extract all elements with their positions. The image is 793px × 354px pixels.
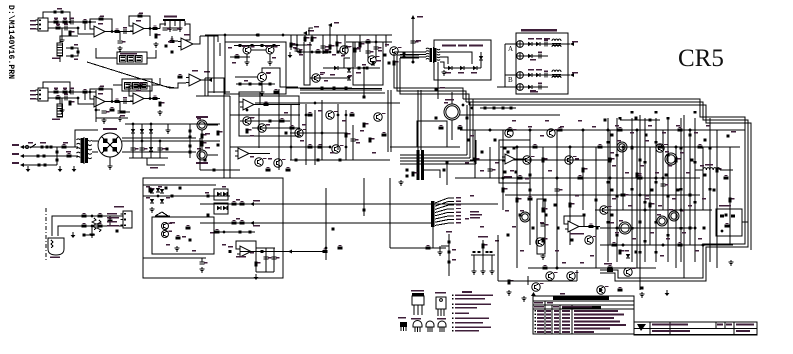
- label drv12: [372, 152, 376, 153]
- label U10: [570, 233, 584, 235]
- wire q6-q7: [251, 49, 266, 51]
- potentiometer VR2: [57, 104, 63, 117]
- wire U3 out: [108, 101, 133, 103]
- wire drv v6: [321, 100, 323, 160]
- wire stub up1: [309, 28, 313, 35]
- wire l5 lead: [695, 169, 703, 171]
- wire fan 3: [435, 205, 454, 209]
- wire amp v6: [542, 147, 544, 210]
- wire fan 6: [435, 216, 454, 219]
- component small 25: [680, 227, 683, 230]
- resistor R102: [338, 159, 341, 162]
- cap CL1: [116, 230, 119, 233]
- label amp 22: [630, 132, 634, 133]
- label LED2: [458, 72, 464, 74]
- wire t1 feed a: [400, 51, 426, 53]
- capacitor C33: [343, 46, 351, 48]
- resistor RA1: [466, 139, 469, 142]
- label amp 5: [610, 152, 614, 153]
- node A1: [69, 21, 71, 23]
- choke bars: [417, 150, 425, 180]
- transistor Q34: [546, 272, 558, 280]
- capacitor CB1: [102, 111, 110, 113]
- wire conduit loop a: [304, 42, 310, 85]
- wire into volume: [96, 48, 117, 58]
- wire B in1: [48, 91, 96, 93]
- resistor RA14: [638, 159, 641, 162]
- label rp1: [74, 44, 78, 45]
- wire u2a in2: [172, 36, 178, 41]
- resistor R151: [724, 175, 729, 180]
- cap C39: [362, 96, 365, 99]
- label amp 14: [680, 210, 684, 211]
- section boundary dash-dot: [45, 208, 47, 262]
- arrow aux2: [250, 221, 254, 225]
- wire lamp up2: [58, 226, 123, 236]
- label c2: [64, 24, 68, 25]
- junction J18: [556, 267, 559, 270]
- label fan pin 2: [456, 201, 461, 202]
- wire t1 feed c: [400, 56, 426, 58]
- resistor R137: [618, 127, 623, 132]
- junction J6: [516, 146, 519, 149]
- transformer T2: [77, 137, 92, 164]
- wire U1B out: [147, 28, 160, 30]
- resistor RA13: [610, 189, 613, 192]
- resistor R126: [569, 203, 575, 208]
- transistor Q32: [585, 236, 597, 244]
- wire cn1 left 2: [400, 222, 431, 224]
- label VR1: [52, 58, 60, 60]
- wire bank2 v4: [159, 141, 161, 158]
- wire pair h: [208, 91, 230, 93]
- separate breakout box: [516, 33, 568, 94]
- wire b drop2: [84, 92, 86, 100]
- cap C38: [387, 62, 390, 65]
- label fan pin 4: [456, 208, 461, 209]
- resistor R10a: [83, 19, 88, 24]
- resistor R11: [54, 89, 59, 93]
- junction J26: [616, 227, 619, 230]
- label S1: [28, 142, 33, 144]
- ground G7: [153, 42, 158, 47]
- wire long link 1: [205, 203, 431, 205]
- label rx2: [66, 151, 71, 153]
- label amp 58: [525, 178, 529, 179]
- node mm3: [329, 51, 331, 53]
- wire fan 4: [435, 209, 454, 213]
- resistor R76: [215, 229, 220, 234]
- node x1: [157, 195, 159, 197]
- resistor R153: [508, 280, 514, 285]
- inductor L1: [552, 39, 561, 41]
- wire aux top: [143, 184, 216, 186]
- capacitor C4: [118, 41, 126, 43]
- resistor R134: [729, 198, 735, 203]
- label amp 4: [575, 158, 579, 159]
- label amp 30: [640, 165, 644, 166]
- wire rail E: [528, 267, 656, 269]
- ground G43: [639, 292, 644, 297]
- junction J3: [582, 129, 585, 132]
- wire fan 8: [435, 223, 454, 225]
- regulator VR-: [197, 148, 207, 160]
- wire t2 sec b: [92, 151, 98, 153]
- wire drv v1: [229, 96, 231, 178]
- res RK2: [512, 147, 515, 150]
- component small 24: [667, 234, 670, 237]
- ground G26: [174, 246, 179, 251]
- label amp 65: [580, 262, 584, 263]
- label r1: [54, 18, 58, 19]
- label BR1: [103, 128, 117, 130]
- wire amp v10: [595, 147, 597, 268]
- arrow AC E: [20, 163, 24, 167]
- wire bus drop 4: [329, 35, 331, 50]
- cap C77: [179, 187, 182, 190]
- label J5 p1: [107, 213, 117, 215]
- label amp 61: [480, 226, 484, 227]
- label amp 51: [560, 126, 564, 127]
- transistor Q36: [597, 286, 609, 294]
- resistor R138: [678, 127, 683, 132]
- capacitor C13: [123, 97, 127, 104]
- bus wrap up 1: [466, 105, 468, 155]
- label rx1: [63, 142, 68, 144]
- terminal TB1: [720, 215, 724, 218]
- tb field5: [717, 324, 723, 326]
- label m6: [378, 50, 382, 51]
- package TO-92 b: [426, 321, 434, 332]
- resistor R7: [138, 13, 143, 17]
- preamp block box: [225, 42, 286, 94]
- resistor RA18: [690, 159, 693, 162]
- resistor R130: [649, 203, 655, 208]
- label drv3: [284, 112, 288, 113]
- resistor R38: [393, 61, 399, 66]
- label m12: [324, 80, 328, 81]
- label amp 45: [666, 238, 670, 239]
- label c51: [416, 40, 421, 42]
- wire u8 fb: [239, 92, 260, 105]
- label r11: [54, 88, 58, 89]
- label LED3: [471, 72, 477, 74]
- label amp 54: [465, 162, 469, 163]
- wire rail J: [600, 227, 693, 229]
- filter capacitor CF1: [131, 148, 139, 150]
- diode D46: [150, 189, 154, 193]
- label amp 3: [540, 135, 544, 136]
- main volume block: [117, 52, 147, 64]
- svg-text:D:\M1140V16.PRN: D:\M1140V16.PRN: [6, 5, 15, 79]
- tb field6: [726, 324, 732, 326]
- label LP1: [50, 257, 60, 259]
- note line 7: [452, 322, 483, 324]
- resistor R22: [260, 44, 263, 47]
- choke feed down 1: [417, 90, 419, 150]
- res T3: [486, 251, 489, 253]
- resistor R158: [619, 250, 625, 255]
- label aux d3: [146, 197, 150, 198]
- amp border left seg 2: [600, 273, 654, 281]
- ground G24: [149, 207, 154, 212]
- output box: [716, 209, 742, 236]
- capacitor C75: [200, 262, 208, 264]
- table corner marker: [531, 292, 536, 296]
- wire amp dense v9: [709, 118, 711, 262]
- wire rail low: [129, 157, 168, 159]
- label FRONT PCB word1: [442, 45, 456, 47]
- component small 23: [655, 221, 658, 224]
- diode D3: [334, 66, 338, 70]
- node B5: [89, 91, 91, 93]
- label q6: [242, 46, 247, 48]
- wire h68: [323, 67, 380, 69]
- junction J13: [662, 177, 665, 180]
- label rg5: [205, 133, 210, 135]
- resistor R3: [56, 25, 61, 30]
- cap C7: [165, 45, 168, 48]
- label drv4: [302, 124, 306, 125]
- resistor R67 zigzag: [97, 220, 101, 232]
- op-amp U10: [565, 221, 582, 232]
- bias network box: [417, 121, 447, 147]
- revision row 6: [535, 328, 611, 330]
- label J1: [30, 20, 36, 21]
- label amp 39: [672, 198, 676, 199]
- wire amp v7: [556, 130, 558, 268]
- wire rail mid: [122, 140, 220, 142]
- tb field4: [672, 330, 690, 332]
- component small 9: [709, 147, 712, 150]
- label amp 31: [655, 172, 659, 173]
- label tee: [478, 236, 488, 238]
- wire t1 feed b: [400, 54, 426, 56]
- transistor Q5: [312, 74, 324, 82]
- package TO-126 body: [436, 297, 446, 316]
- resistor R139: [533, 144, 538, 149]
- transistor Q3: [390, 47, 402, 55]
- wire u2 net: [149, 29, 151, 37]
- wire amp v19: [716, 130, 718, 268]
- wire drv h1: [230, 114, 300, 116]
- wire U3 feedback: [90, 89, 112, 102]
- resistor R18: [153, 95, 158, 99]
- wire reg- out: [207, 154, 218, 156]
- resistor RG5: [201, 134, 207, 139]
- wire t2 top frame: [75, 130, 98, 147]
- cap C52: [434, 88, 437, 91]
- wire drv v8: [352, 125, 354, 160]
- transistor Q2: [340, 46, 352, 54]
- resistor R16: [115, 98, 120, 102]
- connector J1 input A: [36, 18, 49, 31]
- wire amp dense v7: [680, 118, 682, 262]
- label amp 62: [495, 240, 499, 241]
- wire drv h2: [230, 146, 330, 148]
- connector P1 circle: [517, 41, 524, 48]
- rev tbl hdr1: [534, 302, 543, 304]
- wire rail D: [600, 244, 733, 246]
- wire C4 drop: [119, 32, 121, 41]
- label aux r6: [182, 236, 186, 237]
- label amp 19: [660, 255, 664, 256]
- resistor R81b: [260, 250, 263, 253]
- component small 17: [694, 201, 697, 204]
- label J2 name: [30, 98, 36, 99]
- resistor R132: [688, 194, 691, 197]
- filter capacitor CF3: [158, 148, 166, 150]
- ground G21: [107, 164, 112, 169]
- wire long 1: [200, 36, 218, 42]
- wire drv v9: [337, 104, 339, 150]
- resistor R83: [338, 245, 343, 250]
- switch S1 contact: [26, 144, 37, 149]
- resistor R37b: [324, 49, 329, 54]
- label LED1: [445, 72, 451, 74]
- arrow B out: [570, 73, 574, 77]
- revision row 7: [535, 331, 595, 333]
- resistor R22b: [272, 44, 275, 47]
- node l2: [91, 225, 93, 227]
- ground G29: [165, 128, 170, 133]
- wire preamp h43: [234, 45, 280, 47]
- transistor Q38: [532, 283, 544, 291]
- label drv8: [360, 130, 364, 131]
- resistor RA17: [676, 189, 679, 192]
- note line 2: [452, 298, 485, 300]
- label amp 47: [698, 238, 702, 239]
- cap CX2a: [36, 155, 39, 158]
- capacitor C58: [538, 82, 542, 89]
- label CN1 text3: [470, 217, 480, 219]
- resistor R74: [232, 220, 237, 225]
- label amp 40: [688, 205, 692, 206]
- wire right drop2: [375, 35, 377, 58]
- wire speaker: [600, 267, 606, 269]
- rectifier box 1: [214, 189, 228, 200]
- label aux r9: [222, 244, 226, 245]
- wire bot v: [497, 235, 499, 281]
- capacitor C34: [374, 47, 382, 49]
- resistor R91: [264, 101, 269, 105]
- arrow AC N: [20, 154, 24, 158]
- amp border outer: [463, 99, 745, 278]
- res T2: [478, 251, 481, 253]
- note line 1: [452, 295, 493, 297]
- component small 31: [667, 117, 670, 120]
- ground G27: [199, 267, 204, 272]
- label u4: [192, 70, 198, 71]
- diode D49: [160, 199, 164, 203]
- label aux2: [253, 225, 260, 227]
- xfmr feed 1: [394, 52, 463, 99]
- resistor RA8: [544, 214, 547, 217]
- cap C72: [207, 195, 210, 198]
- label amp 46: [682, 232, 686, 233]
- diode D44: [217, 206, 221, 210]
- inductor L5: [703, 168, 720, 170]
- label aux r10: [250, 252, 254, 253]
- rev tbl hdr3: [534, 306, 544, 308]
- wire aux h1: [143, 195, 230, 197]
- transistor Q6: [243, 46, 254, 54]
- wire U1 feedback: [90, 19, 112, 32]
- op-amp U4A: [186, 74, 204, 86]
- label U7: [236, 256, 246, 258]
- wire B row1: [523, 74, 552, 76]
- component small 8: [694, 161, 697, 164]
- wire fan 2: [435, 202, 454, 207]
- label fan pin 7: [456, 219, 461, 220]
- resistor R51: [217, 131, 223, 136]
- amp border inner: [469, 105, 751, 250]
- component small 30: [655, 111, 658, 114]
- resistor R122: [502, 188, 508, 193]
- label B out: [572, 72, 578, 74]
- capacitor C12: [64, 93, 68, 100]
- wire u7 in: [240, 251, 322, 253]
- cap CX3a: [37, 164, 40, 167]
- res RG1: [188, 130, 191, 133]
- label r46: [356, 72, 361, 74]
- cap C86: [405, 175, 408, 178]
- label VR-: [196, 162, 208, 164]
- diode D13: [473, 66, 477, 70]
- node l1: [91, 215, 93, 217]
- label amp 8: [470, 195, 474, 196]
- label fan pin 1: [456, 197, 461, 198]
- node mm2: [311, 51, 313, 53]
- wire q20 down: [451, 120, 453, 140]
- wire rail H: [505, 194, 700, 196]
- bus wrap up 3: [472, 99, 474, 161]
- resistor R20b: [159, 102, 165, 107]
- resistor R33: [311, 37, 317, 42]
- label J5: [114, 206, 124, 208]
- cap C99: [634, 251, 637, 254]
- label F1: [40, 142, 46, 144]
- amp border left seg: [600, 270, 654, 278]
- wire b tail3: [120, 107, 130, 112]
- capacitor C32: [321, 46, 329, 48]
- label A out: [572, 41, 578, 43]
- resistor R62: [98, 213, 103, 218]
- wire q6 down: [246, 54, 248, 60]
- resistor R99: [363, 123, 369, 128]
- wire drv h121: [240, 120, 290, 122]
- component b5: [445, 162, 448, 165]
- wire bank2 v3: [150, 141, 152, 158]
- node f4: [159, 140, 161, 142]
- wire q8 down: [261, 82, 263, 91]
- wire u9 out: [249, 153, 270, 155]
- label amp 35: [612, 198, 616, 199]
- ground G5: [59, 108, 64, 113]
- wire aux rail 232: [214, 231, 255, 233]
- wire bot rise: [576, 270, 578, 281]
- resistor R92: [274, 89, 279, 93]
- resistor RA15: [650, 189, 653, 192]
- resistor R75: [240, 220, 245, 225]
- wire t68 drop: [363, 68, 365, 97]
- transistor Q35: [567, 272, 579, 280]
- node o2: [600, 289, 602, 291]
- ground G25: [71, 232, 76, 238]
- label drv14: [268, 158, 272, 159]
- node br2: [471, 107, 473, 109]
- wire gnd drop 29: [167, 124, 169, 128]
